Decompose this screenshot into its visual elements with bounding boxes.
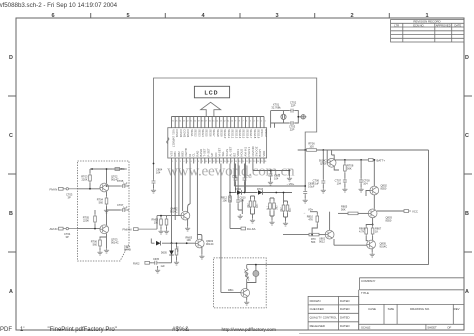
svg-text:FM/AM: FM/AM — [123, 227, 133, 231]
resistor RT05 220K — [83, 210, 97, 229]
svg-text:UP: UP — [210, 152, 214, 156]
svg-text:1uF: 1uF — [123, 205, 128, 209]
svg-text:1uF: 1uF — [161, 265, 166, 268]
wire caps to test point — [295, 111, 301, 123]
resistor RT0A 560 emitter — [91, 234, 107, 255]
svg-text:A: A — [465, 289, 469, 295]
svg-text:5: 5 — [250, 121, 251, 123]
test point symbol — [300, 115, 306, 119]
svg-text:SEG11: SEG11 — [227, 129, 231, 138]
svg-text:P-SET: P-SET — [206, 148, 210, 157]
connector RT-OUT top — [112, 168, 127, 172]
svg-text:12: 12 — [212, 161, 214, 163]
svg-text:3: 3 — [275, 13, 278, 19]
svg-text:DN: DN — [214, 152, 218, 156]
svg-text:11: 11 — [209, 161, 211, 163]
bottom trial-version line under title block — [299, 332, 474, 334]
svg-text:wf5088b3.sch-2 - Fri Sep 10 14: wf5088b3.sch-2 - Fri Sep 10 14:19:07 200… — [0, 2, 118, 9]
svg-text:B: B — [9, 211, 13, 217]
svg-text:AL-SET: AL-SET — [229, 146, 233, 156]
svg-text:BA1: BA1 — [289, 207, 292, 212]
wire net170 — [253, 170, 290, 172]
svg-text:21: 21 — [246, 161, 248, 163]
ground Q805 emitter — [370, 249, 375, 257]
svg-text:1: 1 — [265, 121, 266, 123]
svg-text:DRAWING NO.: DRAWING NO. — [410, 307, 430, 311]
svg-text:FM-IN1: FM-IN1 — [247, 147, 251, 157]
zone ticks right — [464, 96, 472, 252]
svg-text:AM-IN1: AM-IN1 — [243, 146, 247, 156]
svg-text:25: 25 — [261, 161, 263, 163]
transistor QM03 — [195, 239, 213, 248]
svg-text:VD+: VD+ — [308, 208, 314, 212]
node junction box leg — [153, 163, 155, 165]
svg-text:24: 24 — [257, 161, 259, 163]
svg-text:LTR: LTR — [394, 23, 399, 27]
svg-text:SEG18: SEG18 — [253, 129, 257, 139]
node junction n243a — [171, 242, 173, 244]
node junction batt1 — [344, 159, 346, 161]
svg-text:T-SET: T-SET — [203, 148, 207, 156]
net label VD+ right — [303, 208, 317, 215]
svg-text:D605: D605 — [161, 252, 168, 255]
node junction QT02 base — [89, 188, 91, 190]
svg-text:22P: 22P — [291, 104, 296, 108]
wire BATT line — [334, 160, 368, 170]
IC U701 top pin numbers — [172, 121, 266, 123]
svg-text:M-SET: M-SET — [218, 147, 222, 156]
dashed box FM/AM preamp — [78, 161, 130, 261]
svg-text:560: 560 — [99, 201, 104, 205]
svg-text:BATT+: BATT+ — [377, 158, 386, 162]
transistor QT06 — [319, 158, 336, 167]
svg-text:1M2: 1M2 — [248, 203, 250, 208]
connector FM/AM — [123, 227, 158, 231]
svg-text:C605: C605 — [153, 258, 160, 261]
svg-text:TITLE: TITLE — [361, 291, 369, 295]
node junction preamp rail2 — [106, 168, 108, 170]
svg-text:104: 104 — [240, 200, 245, 203]
resistor RT03 220K — [81, 169, 91, 189]
svg-text:7: 7 — [194, 161, 195, 163]
svg-text:RV00: RV00 — [121, 168, 128, 171]
svg-text:1: 1 — [172, 161, 173, 163]
title block — [308, 278, 464, 330]
resistor cluster R602 — [267, 198, 279, 225]
svg-text:DRAWN: DRAWN — [310, 299, 321, 303]
svg-text:VO1: VO1 — [171, 129, 175, 135]
node junction buzzer top — [255, 264, 257, 266]
node junction n243b — [186, 242, 188, 244]
svg-text:20: 20 — [242, 161, 244, 163]
node junction crystal — [297, 116, 299, 118]
svg-text:2: 2 — [261, 121, 262, 123]
svg-text:OSC1: OSC1 — [260, 129, 264, 137]
svg-text:DATED: DATED — [340, 324, 350, 328]
svg-text:C: C — [9, 133, 13, 139]
svg-text:COM1: COM1 — [175, 129, 179, 138]
svg-text:2: 2 — [350, 13, 353, 19]
node junction q803c — [372, 224, 374, 226]
revision record table — [391, 20, 464, 43]
capacitor CT03 — [289, 121, 296, 132]
svg-text:SCAN: SCAN — [225, 149, 229, 157]
svg-text:LCD: LCD — [204, 90, 218, 96]
wire FM/AM riser — [157, 216, 181, 230]
svg-text:QUALITY CONTROL: QUALITY CONTROL — [310, 316, 338, 320]
svg-text:23: 23 — [183, 121, 185, 123]
transistor Q802 8550 — [370, 184, 388, 195]
svg-text:4: 4 — [183, 161, 184, 163]
zone numbers top — [51, 13, 428, 19]
svg-text:VCC: VCC — [412, 209, 418, 213]
wire QM02 collector — [188, 204, 191, 212]
node junction preamp rail1 — [91, 168, 93, 170]
svg-text:9: 9 — [202, 161, 203, 163]
svg-text:10K: 10K — [187, 239, 192, 242]
wire QM03 collector — [197, 235, 202, 240]
svg-text:16: 16 — [209, 121, 211, 123]
svg-text:AM-IN: AM-IN — [50, 227, 58, 231]
diode D604 — [124, 241, 161, 252]
svg-text:DATED: DATED — [340, 316, 350, 320]
svg-text:15: 15 — [212, 121, 214, 123]
connector VCC — [377, 209, 418, 213]
resistor cluster R603 — [281, 192, 292, 226]
svg-text:B: B — [465, 211, 469, 217]
svg-text:18: 18 — [235, 161, 237, 163]
ground n170b — [287, 171, 292, 182]
resistor cluster R601 — [248, 196, 259, 223]
svg-text:26: 26 — [172, 121, 174, 123]
svg-text:19: 19 — [238, 161, 240, 163]
transistor Q804 buzzer driver — [241, 289, 250, 298]
svg-text:C: C — [465, 133, 469, 139]
svg-text:QT06: QT06 — [320, 162, 327, 166]
wire QT06 base/collector — [327, 150, 334, 163]
zone letters right — [465, 55, 469, 295]
svg-text:13: 13 — [216, 161, 218, 163]
svg-text:32.768k: 32.768k — [271, 106, 281, 110]
capacitor CT07 104 to ground — [335, 178, 348, 192]
wire net243 — [151, 239, 195, 244]
connector RV02 with cap C605 — [133, 258, 172, 268]
svg-text:SEG19: SEG19 — [257, 129, 261, 139]
wire QT02 emitter — [106, 192, 108, 196]
resistor RM06 vertical — [174, 242, 180, 265]
svg-text:17: 17 — [231, 161, 233, 163]
svg-text:DATED: DATED — [340, 299, 350, 303]
buzzer BZ801 circle — [247, 265, 259, 283]
svg-text:1: 1 — [425, 13, 428, 19]
svg-text:5: 5 — [126, 13, 129, 19]
diode D605 vertical — [161, 243, 174, 263]
svg-text:REV: REV — [454, 307, 460, 311]
node junction n170b — [289, 170, 291, 172]
svg-text:SEG1: SEG1 — [190, 129, 194, 137]
IC U701 top pin labels — [171, 129, 268, 139]
svg-text:22: 22 — [186, 121, 188, 123]
IC U701 bottom pin stubs — [172, 158, 265, 164]
capacitor C712 on riser — [243, 164, 253, 193]
svg-text:OSC2: OSC2 — [264, 129, 268, 137]
wire buzzer top — [247, 264, 267, 266]
svg-text:8: 8 — [239, 121, 240, 123]
svg-text:DI: DI — [188, 153, 192, 156]
capacitor C804 on box left leg — [151, 168, 163, 194]
svg-text:DA-KA: DA-KA — [247, 227, 256, 231]
svg-text:56K: 56K — [347, 167, 352, 171]
wire QT03 collector — [106, 210, 108, 225]
wire net VD — [234, 150, 305, 190]
svg-text:16: 16 — [227, 161, 229, 163]
svg-text:100: 100 — [309, 145, 314, 149]
svg-text:SEG16: SEG16 — [245, 129, 249, 139]
top pin bus — [172, 116, 265, 118]
svg-text:SNOOZ: SNOOZ — [255, 146, 259, 156]
big arrow to LCD — [201, 102, 221, 116]
connector FM-IN — [50, 187, 78, 199]
svg-text:20: 20 — [194, 121, 196, 123]
svg-text:REVISION RECORD: REVISION RECORD — [413, 20, 440, 24]
connector DA-KA — [230, 227, 256, 231]
svg-text:SEG9: SEG9 — [220, 129, 224, 137]
svg-text:SEG13: SEG13 — [234, 129, 238, 139]
svg-text:13: 13 — [220, 121, 222, 123]
svg-text:25: 25 — [175, 121, 177, 123]
capacitor C805 104 — [268, 171, 281, 186]
crystal XT01 label — [271, 102, 281, 109]
wire net192 — [230, 192, 292, 194]
svg-text:56K: 56K — [311, 241, 316, 244]
svg-text:560: 560 — [93, 243, 98, 247]
resistor RT06 on rail — [307, 142, 317, 152]
svg-text:0.5uF: 0.5uF — [308, 186, 315, 189]
capacitor C810 — [236, 197, 246, 220]
svg-text:SEG14: SEG14 — [238, 129, 242, 139]
svg-text:6: 6 — [51, 13, 54, 19]
svg-text:8550: 8550 — [381, 187, 387, 191]
svg-text:1K: 1K — [375, 230, 378, 234]
svg-text:14: 14 — [220, 161, 222, 163]
svg-text:2: 2 — [176, 161, 177, 163]
ground QM03 emitter — [199, 247, 204, 259]
capacitor CT02 — [289, 101, 297, 113]
svg-text:4.7K: 4.7K — [359, 230, 365, 234]
svg-text:9014C: 9014C — [206, 242, 214, 246]
svg-text:D: D — [465, 55, 469, 61]
svg-text:SEL: SEL — [221, 151, 225, 157]
svg-text:D702: D702 — [235, 188, 242, 191]
resistor RM03 — [152, 216, 164, 234]
svg-text:OF: OF — [447, 326, 451, 330]
svg-text:8: 8 — [198, 161, 199, 163]
svg-text:10: 10 — [205, 161, 207, 163]
diode D703 — [257, 188, 264, 195]
svg-text:SEG6: SEG6 — [208, 129, 212, 137]
svg-text:COM4: COM4 — [186, 129, 190, 138]
wire crystal rails — [271, 111, 289, 128]
wire Q802 — [366, 160, 374, 209]
svg-text:RV02: RV02 — [133, 261, 140, 265]
svg-text:DA1: DA1 — [256, 203, 259, 208]
node junction n170a — [270, 170, 272, 172]
svg-text:9014C: 9014C — [111, 241, 119, 245]
svg-text:47K: 47K — [308, 218, 313, 222]
svg-text:SCALE: SCALE — [361, 325, 371, 329]
svg-text:3: 3 — [180, 161, 181, 163]
node junction n192c — [244, 192, 246, 194]
svg-text:D703: D703 — [257, 188, 264, 191]
capacitor CT08 to ground — [359, 160, 371, 192]
svg-text:104: 104 — [363, 182, 368, 186]
svg-text:AL1: AL1 — [267, 205, 270, 210]
svg-text:COM3: COM3 — [183, 129, 187, 138]
connector AM-IN — [50, 227, 78, 239]
svg-text:220K: 220K — [81, 178, 87, 182]
resistor R805 56K on base wire — [338, 205, 368, 215]
svg-text:#$%&: #$%& — [172, 326, 190, 333]
diode D702 — [235, 188, 242, 195]
svg-text:DATE: DATE — [454, 23, 461, 27]
IC U701 body — [168, 128, 267, 158]
top box outline — [154, 78, 317, 179]
LCD box U-LCD — [194, 86, 229, 98]
node junction rail x323 — [322, 149, 324, 151]
svg-text:19: 19 — [198, 121, 200, 123]
svg-text:ON/OFF: ON/OFF — [251, 146, 255, 157]
transistor QM02 — [170, 207, 190, 220]
connector BATT+ — [369, 158, 386, 162]
node junction batt2 — [360, 159, 362, 161]
capacitor C806 to ground — [303, 183, 315, 204]
svg-text:FM-IN: FM-IN — [50, 187, 58, 191]
IC U701 bottom pin numbers — [172, 161, 266, 163]
svg-text:1uF: 1uF — [123, 181, 128, 185]
transistor QT02 — [100, 175, 119, 192]
resistor R806 4.7K — [359, 225, 373, 241]
resistor R812 on riser — [221, 194, 232, 229]
svg-text:SEG8: SEG8 — [216, 129, 220, 137]
svg-text:HOLD: HOLD — [240, 149, 244, 157]
ground buzzer emitter — [244, 297, 249, 305]
svg-text:SEG3: SEG3 — [197, 129, 201, 137]
svg-text:KB1: KB1 — [173, 151, 177, 157]
svg-text:CE/TB: CE/TB — [184, 148, 188, 157]
svg-text:RM06: RM06 — [178, 245, 180, 252]
wire bottom ground rail — [266, 264, 428, 266]
dashed box buzzer driver — [214, 258, 267, 308]
svg-text:C712: C712 — [246, 177, 252, 179]
svg-text:CASE: CASE — [368, 307, 376, 311]
wire risers from IC pins — [172, 164, 253, 244]
svg-text:9014C: 9014C — [380, 245, 388, 249]
svg-text:18: 18 — [201, 121, 203, 123]
svg-text:PDF: PDF — [0, 327, 12, 333]
svg-text:1': 1' — [20, 327, 24, 333]
transistor QT03 — [100, 225, 119, 245]
svg-text:4: 4 — [254, 121, 255, 123]
inductor L801 coil — [244, 265, 249, 283]
svg-text:SEG15: SEG15 — [242, 129, 246, 139]
wire buzzer base riser — [221, 190, 247, 292]
svg-text:COM2: COM2 — [179, 129, 183, 138]
node junction qm02base — [160, 215, 162, 217]
svg-text:BH4B: BH4B — [124, 248, 131, 252]
svg-text:"FinePrint pdfFactory Pro": "FinePrint pdfFactory Pro" — [48, 327, 117, 333]
ground RV02 — [155, 266, 160, 273]
svg-text:10K: 10K — [222, 199, 227, 203]
transistor Q803 8550 — [368, 209, 392, 223]
svg-text:104: 104 — [156, 171, 161, 175]
svg-text:CHECKED: CHECKED — [310, 307, 324, 311]
capacitor C711 on riser — [232, 164, 238, 193]
svg-text:RELEASED: RELEASED — [310, 324, 325, 328]
svg-text:26: 26 — [264, 161, 266, 163]
svg-text:SEG5: SEG5 — [205, 129, 209, 137]
svg-text:SEG12: SEG12 — [231, 129, 235, 139]
node junction rail x305 — [304, 149, 306, 151]
svg-text:22: 22 — [249, 161, 251, 163]
svg-text:C711: C711 — [232, 177, 238, 179]
svg-text:SEG7: SEG7 — [212, 129, 216, 137]
resistor R804 on 9012 base — [283, 233, 325, 244]
svg-text:CL: CL — [192, 152, 196, 156]
svg-text:5: 5 — [187, 161, 188, 163]
svg-text:SHEET: SHEET — [427, 326, 437, 330]
svg-text:BZ: BZ — [232, 153, 236, 157]
net label VD+ — [286, 182, 295, 186]
crystal XT01 — [281, 114, 286, 119]
svg-text:10K: 10K — [154, 222, 159, 225]
node junction 9012base — [311, 234, 313, 236]
svg-text:10: 10 — [231, 121, 233, 123]
svg-text:22P: 22P — [290, 128, 295, 132]
wire 9012 collector up — [329, 212, 331, 231]
svg-text:220K: 220K — [83, 219, 89, 223]
svg-text:21: 21 — [190, 121, 192, 123]
zone ticks left — [8, 96, 16, 252]
svg-text:23: 23 — [253, 161, 255, 163]
svg-text:7: 7 — [242, 121, 243, 123]
wire VCC rail y150 — [298, 150, 429, 265]
IC U701 top pin stubs — [172, 117, 265, 128]
svg-text:3: 3 — [257, 121, 258, 123]
svg-text:ECN NO.: ECN NO. — [413, 23, 424, 27]
node junction vd — [304, 185, 306, 187]
svg-text:104: 104 — [337, 182, 342, 186]
svg-text:14: 14 — [216, 121, 218, 123]
capacitor CT05 1uF out1 — [106, 179, 129, 188]
svg-text:SEG4: SEG4 — [201, 129, 205, 137]
svg-text:BCKY: BCKY — [258, 149, 262, 157]
svg-text:1M2: 1M2 — [281, 207, 283, 212]
svg-text:SEG2: SEG2 — [194, 129, 198, 137]
resistor R810 base pullup — [307, 212, 319, 235]
svg-text:9: 9 — [235, 121, 236, 123]
svg-text:3P: 3P — [66, 235, 69, 239]
svg-text:SEG10: SEG10 — [223, 129, 227, 139]
svg-text:24: 24 — [179, 121, 181, 123]
svg-text:http://www.pdffactory.com: http://www.pdffactory.com — [222, 327, 276, 333]
IC U701 bottom pin labels — [169, 146, 266, 157]
zone ticks top — [91, 13, 390, 18]
svg-text:VDD: VDD — [262, 151, 266, 157]
transistor Q805 9014C — [367, 240, 388, 249]
wire preamp vcc rail — [78, 169, 125, 229]
node junction q802e — [373, 159, 375, 161]
svg-text:3P: 3P — [68, 195, 71, 199]
